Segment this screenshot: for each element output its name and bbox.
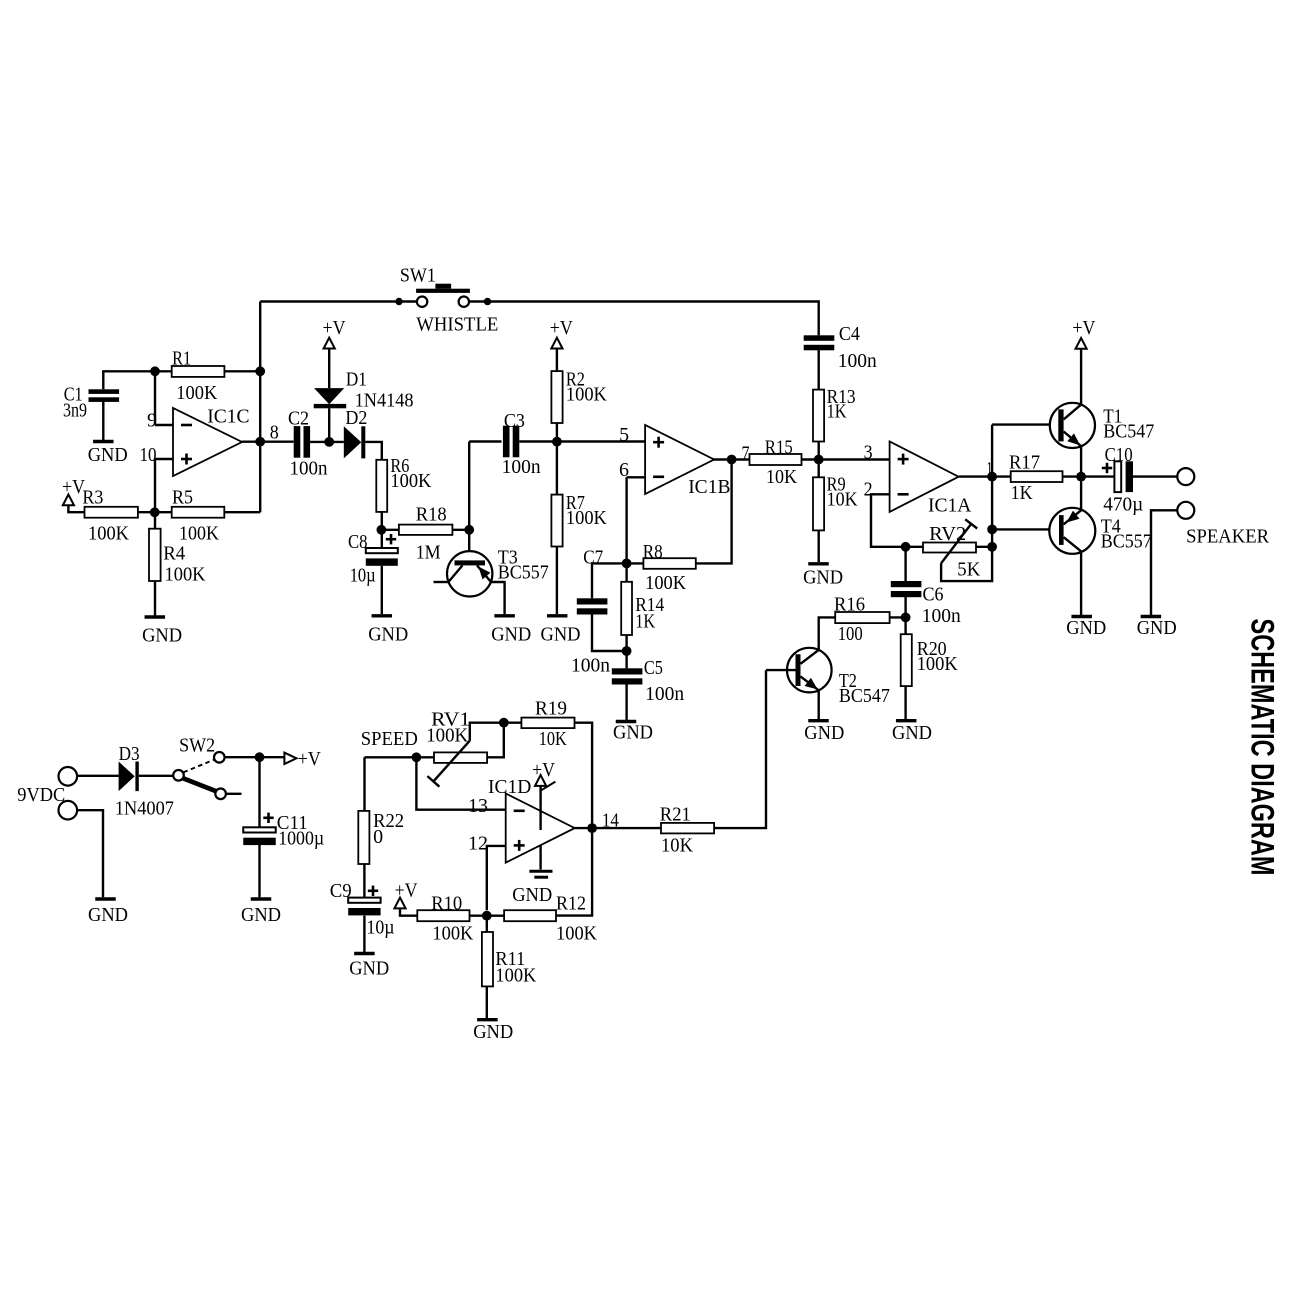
svg-text:100n: 100n — [290, 459, 328, 480]
capacitor C7 — [577, 598, 608, 604]
ground below C8 — [372, 614, 393, 617]
svg-text:10µ: 10µ — [350, 566, 376, 587]
electrolytic capacitor C10 — [1114, 461, 1121, 492]
wire T1/T4 base riser — [991, 425, 993, 547]
op-amp IC1D — [506, 794, 575, 863]
svg-text:IC1C: IC1C — [207, 407, 249, 428]
wire R14 leads — [625, 563, 627, 581]
svg-text:10K: 10K — [827, 490, 858, 511]
wire R13 to junction — [818, 442, 820, 460]
wire to R22 — [363, 757, 365, 811]
speaker terminal 2 — [1177, 502, 1194, 519]
svg-text:R5: R5 — [172, 488, 193, 509]
svg-text:WHISTLE: WHISTLE — [416, 315, 498, 336]
+V supply at R2 — [551, 338, 562, 349]
node R19 left junction — [499, 718, 509, 728]
wire feedback to R8 — [696, 460, 732, 564]
potentiometer RV1 — [434, 752, 487, 763]
wire +V to D1 — [328, 349, 330, 389]
svg-text:+V: +V — [298, 749, 321, 770]
wire D2 to R6 — [365, 442, 382, 460]
svg-text:GND: GND — [541, 625, 581, 646]
wire R16 left to T2 collector — [819, 617, 836, 650]
svg-text:GND: GND — [142, 626, 182, 647]
svg-text:R19: R19 — [535, 699, 567, 720]
svg-text:R1: R1 — [172, 349, 191, 370]
wire C10 to speaker terminal — [1133, 475, 1177, 477]
node output/feedback junction — [727, 455, 737, 465]
+V supply at R10 — [394, 898, 405, 909]
svg-text:100n: 100n — [502, 457, 541, 478]
wire RV2 right to junction — [976, 546, 992, 548]
resistor R17 — [1011, 471, 1063, 482]
node R6/C8/R18 junction — [377, 525, 387, 535]
svg-text:1M: 1M — [416, 543, 441, 564]
+V supply at R3 — [63, 495, 74, 506]
wire SPEED node — [365, 756, 435, 758]
svg-text:C2: C2 — [288, 409, 309, 430]
svg-text:R4: R4 — [163, 544, 185, 565]
wire C8 to ground — [381, 566, 383, 614]
wire C1 to ground — [102, 402, 104, 441]
svg-text:GND: GND — [803, 568, 843, 589]
wire T3 collector stub — [434, 581, 449, 583]
node C6 top junction — [901, 542, 911, 552]
svg-text:GND: GND — [241, 905, 281, 926]
wire to C11 — [258, 757, 260, 827]
wire C4 to R13 — [818, 350, 820, 390]
svg-text:10µ: 10µ — [367, 918, 395, 939]
wire R15 right / pin 3 — [801, 458, 889, 460]
capacitor C5 — [612, 668, 643, 674]
+V supply at D1 — [324, 338, 335, 349]
wire R16 right — [890, 616, 906, 618]
wire R6 to C8/R18 junction — [381, 512, 383, 548]
svg-text:R8: R8 — [643, 542, 663, 563]
svg-text:IC1A: IC1A — [928, 496, 971, 517]
wire R5 right to rail — [224, 511, 260, 513]
speaker terminal 1 — [1177, 468, 1194, 485]
svg-text:1K: 1K — [827, 402, 847, 423]
svg-text:10K: 10K — [661, 836, 693, 857]
wire +V to R3 — [68, 505, 84, 512]
node R16/C6/R20 junction — [901, 613, 911, 623]
wire R1 right to rail — [224, 370, 260, 372]
wire R2 to junction — [556, 423, 558, 442]
wire pin 12 — [487, 846, 506, 910]
wire 9VDC to D3 — [77, 775, 119, 777]
resistor R12 — [504, 910, 556, 921]
node R18/T3/C3 junction — [464, 525, 474, 535]
diode D3 — [119, 762, 135, 792]
svg-text:GND: GND — [491, 625, 531, 646]
svg-text:C3: C3 — [504, 411, 525, 432]
svg-text:100n: 100n — [645, 684, 684, 705]
wire to R18 left — [381, 529, 399, 531]
resistor R14 — [621, 582, 632, 635]
svg-text:9: 9 — [147, 411, 157, 432]
svg-text:+V: +V — [532, 760, 555, 781]
svg-text:1: 1 — [987, 459, 993, 480]
resistor R10 — [417, 910, 469, 921]
svg-text:GND: GND — [804, 723, 844, 744]
ground below R9 — [808, 562, 829, 565]
node rail/R1 junction — [255, 366, 265, 376]
svg-text:10K: 10K — [539, 729, 567, 750]
wire RV2 wiper loop — [941, 547, 992, 581]
wire T3 base — [468, 530, 470, 561]
svg-text:3: 3 — [864, 443, 873, 464]
svg-text:8: 8 — [270, 423, 279, 444]
svg-text:BC557: BC557 — [498, 563, 549, 584]
wire R20 leads — [904, 617, 906, 634]
node T4 base junction — [987, 525, 997, 535]
svg-text:GND: GND — [349, 959, 389, 980]
resistor R18 — [399, 525, 453, 535]
resistor R11 — [482, 932, 493, 986]
wire +V to T1 collector — [1080, 349, 1082, 405]
resistor R5 — [172, 507, 225, 518]
ground below T4 — [1071, 615, 1092, 618]
svg-text:9VDC: 9VDC — [17, 785, 65, 806]
wire R18 right to T3 base riser — [452, 529, 469, 531]
resistor R9 — [813, 477, 824, 530]
svg-text:C9: C9 — [330, 881, 352, 902]
wire R22 to C9 — [363, 864, 365, 897]
svg-text:D3: D3 — [119, 744, 140, 765]
wire R1 left to C1 and pin 9 — [103, 371, 155, 389]
svg-text:3n9: 3n9 — [63, 401, 87, 422]
node pin6/R8/C7/R14 junction — [622, 559, 632, 569]
svg-text:13: 13 — [468, 796, 488, 817]
svg-text:RV2: RV2 — [929, 524, 966, 545]
node pin 14 junction — [587, 823, 597, 833]
resistor R4 — [149, 529, 161, 581]
resistor R15 — [750, 454, 802, 465]
svg-text:R21: R21 — [660, 805, 691, 826]
node pin 1 junction — [987, 472, 997, 482]
ground below T2 — [808, 719, 829, 722]
wire top rail right of SW1 — [469, 302, 819, 336]
switch SW2 — [173, 770, 184, 781]
svg-text:C8: C8 — [348, 532, 368, 553]
svg-text:SCHEMATIC DIAGRAM: SCHEMATIC DIAGRAM — [1244, 619, 1280, 876]
wire IC1B output pin 7 — [713, 458, 749, 460]
svg-text:1N4007: 1N4007 — [115, 799, 174, 820]
wire to C5 — [625, 651, 627, 668]
wire R3 to R5 junction — [138, 511, 172, 513]
svg-text:100K: 100K — [917, 654, 958, 675]
svg-text:100K: 100K — [176, 383, 217, 404]
node R15/R13/R9/pin3 junction — [814, 455, 824, 465]
node R10/R11/R12/pin12 junction — [482, 911, 492, 921]
wire R8 left junction — [627, 562, 644, 564]
+V supply at T1 — [1076, 338, 1087, 349]
wire to R1 left — [155, 370, 172, 372]
wire R19 right feedback — [556, 723, 592, 916]
wire pin 2 to RV2 — [871, 494, 923, 547]
svg-text:SW2: SW2 — [179, 736, 215, 757]
svg-text:R16: R16 — [834, 595, 865, 616]
svg-text:+V: +V — [395, 881, 418, 902]
wire +V to R10 — [400, 908, 417, 915]
+V supply above IC1D — [535, 775, 546, 786]
svg-text:100n: 100n — [922, 606, 961, 627]
wire SW2 lower contact stub — [226, 793, 242, 795]
ground below speaker — [1141, 615, 1162, 618]
node C7/R14/C5 junction — [622, 646, 632, 656]
svg-text:12: 12 — [468, 834, 488, 855]
transistor T4 — [1049, 508, 1095, 554]
svg-text:GND: GND — [368, 625, 408, 646]
resistor R21 — [661, 823, 714, 834]
svg-text:0: 0 — [373, 827, 383, 848]
node output junction — [1076, 472, 1086, 482]
electrolytic capacitor C9 — [348, 898, 380, 903]
resistor R1 — [172, 366, 225, 377]
wire D1 to C2/D2 node — [328, 408, 330, 442]
resistor R22 — [358, 811, 369, 864]
svg-text:100K: 100K — [432, 924, 473, 945]
wire T4 base — [992, 528, 1059, 530]
wire RV1 right end riser — [487, 723, 504, 758]
svg-text:100K: 100K — [390, 471, 431, 492]
wire C9 to ground — [363, 916, 365, 952]
svg-text:R17: R17 — [1009, 453, 1040, 474]
ground below 9VDC — [95, 897, 116, 900]
wire C6 bottom — [904, 597, 906, 618]
svg-text:GND: GND — [88, 445, 128, 466]
wire T3 emitter to ground — [491, 582, 505, 614]
stray mark near IC1D supply — [541, 782, 555, 791]
wire pin 10 riser — [155, 458, 173, 460]
svg-text:C4: C4 — [839, 324, 860, 345]
switch SW1 — [395, 298, 402, 305]
capacitor C3 — [503, 426, 510, 458]
resistor R20 — [901, 634, 912, 686]
resistor R19 — [521, 718, 574, 729]
terminal 9VDC negative — [59, 801, 78, 820]
svg-text:+V: +V — [1072, 318, 1095, 339]
ground below R7 — [547, 614, 568, 617]
op-amp IC1C output pin 8 wire — [242, 441, 294, 443]
svg-text:100K: 100K — [566, 508, 607, 529]
svg-text:100K: 100K — [645, 573, 686, 594]
wire +V to R2 — [556, 349, 558, 372]
capacitor C1 — [89, 389, 120, 394]
svg-text:SPEED: SPEED — [361, 729, 418, 750]
svg-text:GND: GND — [1137, 618, 1177, 639]
wire T2 emitter to ground — [818, 690, 820, 719]
ground below R4 — [145, 615, 166, 618]
ground below C11 — [251, 897, 272, 900]
wire 9VDC negative to ground — [77, 810, 103, 897]
svg-text:R18: R18 — [416, 504, 447, 525]
ground below T3 — [494, 614, 514, 617]
node RV2 right junction — [987, 542, 997, 552]
potentiometer RV2 — [923, 543, 976, 553]
svg-text:100n: 100n — [838, 351, 877, 372]
svg-text:BC557: BC557 — [1101, 532, 1152, 553]
svg-text:C6: C6 — [923, 585, 944, 606]
svg-text:1000µ: 1000µ — [278, 829, 324, 850]
svg-text:100K: 100K — [566, 385, 607, 406]
node R2/R7/pin5 junction — [552, 437, 562, 447]
wire C5 to ground — [625, 684, 627, 720]
ground IC1D power pin — [529, 870, 552, 873]
ground below R11 — [477, 1018, 498, 1021]
wire R7 leads — [556, 442, 558, 495]
svg-text:R12: R12 — [556, 894, 586, 915]
resistor R2 — [551, 371, 562, 423]
wire T1 emitter to output node — [1080, 446, 1082, 476]
wire C3 to IC1B pin 5 — [519, 440, 645, 442]
svg-text:IC1B: IC1B — [688, 477, 730, 498]
svg-text:GND: GND — [1066, 618, 1106, 639]
node pin10/R3/R4/R5 junction — [150, 507, 160, 517]
svg-text:C10: C10 — [1105, 445, 1133, 466]
resistor R7 — [551, 495, 562, 547]
svg-text:100K: 100K — [426, 726, 468, 747]
wire IC1D ground pin — [539, 845, 541, 870]
svg-text:470µ: 470µ — [1103, 495, 1143, 516]
ground below C5 — [616, 720, 637, 723]
wire D3 to SW2 — [139, 775, 173, 777]
ground below C9 — [354, 952, 375, 955]
svg-text:R15: R15 — [765, 437, 793, 458]
wire R10/R11/R12 junction row — [470, 915, 505, 917]
svg-text:IC1D: IC1D — [488, 777, 531, 798]
wire to C7 — [592, 563, 627, 598]
svg-text:R3: R3 — [82, 488, 103, 509]
svg-text:100K: 100K — [88, 524, 129, 545]
svg-text:SW1: SW1 — [400, 266, 436, 287]
svg-text:C5: C5 — [644, 658, 663, 679]
resistor R13 — [813, 390, 824, 442]
svg-text:R10: R10 — [431, 894, 462, 915]
node C11 top junction — [255, 752, 265, 762]
svg-text:GND: GND — [613, 723, 653, 744]
svg-text:100K: 100K — [165, 565, 206, 586]
svg-text:+V: +V — [550, 318, 573, 339]
resistor R3 — [85, 507, 138, 518]
svg-text:+V: +V — [323, 318, 346, 339]
resistor R8 — [643, 558, 695, 569]
svg-text:100K: 100K — [556, 924, 597, 945]
op-amp IC1B — [645, 425, 714, 494]
svg-text:D2: D2 — [345, 408, 367, 429]
svg-text:SPEAKER: SPEAKER — [1186, 527, 1269, 548]
node R1 left junction — [150, 366, 160, 376]
svg-text:GND: GND — [892, 723, 932, 744]
svg-text:100n: 100n — [571, 656, 610, 677]
svg-text:100: 100 — [838, 624, 863, 645]
wire IC1D +V pin — [539, 786, 541, 830]
wire C11 to ground — [258, 845, 260, 898]
wire R4 leads — [154, 512, 156, 529]
node RV1 left junction — [412, 752, 422, 762]
capacitor C6 — [891, 581, 922, 587]
wire speaker terminal 2 to ground — [1151, 510, 1177, 615]
diode D1 — [314, 388, 344, 404]
electrolytic capacitor C11 — [243, 827, 276, 832]
svg-text:GND: GND — [473, 1022, 513, 1043]
resistor R6 — [376, 460, 387, 512]
svg-text:5: 5 — [619, 425, 629, 446]
wire top rail left of SW1 — [260, 300, 417, 302]
wire to C3 — [469, 440, 501, 442]
wire IC1A output pin 1 — [959, 475, 1011, 477]
wire T4 collector to ground — [1080, 552, 1082, 615]
ground below C1 — [93, 440, 114, 443]
wire RV1 wiper to R19 — [470, 723, 522, 741]
svg-text:100K: 100K — [179, 524, 219, 545]
svg-text:D1: D1 — [346, 370, 367, 391]
wire C7 bottom to R14 bottom — [592, 614, 627, 652]
wire pin 13 — [416, 757, 505, 809]
svg-text:BC547: BC547 — [1103, 422, 1154, 443]
svg-text:C7: C7 — [583, 548, 603, 569]
wire R21 to T2 base — [714, 670, 766, 828]
terminal 9VDC positive — [59, 767, 78, 786]
wire R17 right to output node — [1063, 475, 1115, 477]
wire T1 base — [992, 423, 1058, 425]
svg-text:5K: 5K — [957, 560, 980, 581]
wire R9 leads — [818, 460, 820, 478]
electrolytic capacitor C8 — [366, 548, 398, 553]
wire T2 base — [766, 669, 796, 671]
wire SW2 upper contact to +V — [225, 756, 285, 758]
wire pin 6 — [627, 476, 646, 478]
resistor R16 — [835, 612, 889, 623]
transistor T3 — [447, 551, 492, 596]
op-amp IC1A — [890, 442, 959, 512]
wire riser to C3 — [468, 442, 470, 530]
svg-text:BC547: BC547 — [839, 686, 890, 707]
+V supply arrow right — [284, 753, 296, 764]
wire R11 leads — [486, 916, 488, 932]
capacitor C4 — [804, 335, 835, 341]
svg-text:GND: GND — [88, 905, 128, 926]
svg-text:7: 7 — [742, 444, 750, 465]
transistor T2 — [787, 648, 832, 693]
transistor T1 — [1050, 403, 1095, 448]
node D1/C2/D2 junction — [324, 437, 334, 447]
diode D2 — [344, 426, 362, 458]
svg-text:10K: 10K — [766, 467, 797, 488]
capacitor C2 — [294, 426, 301, 458]
svg-text:1K: 1K — [1011, 483, 1033, 504]
svg-text:100K: 100K — [495, 966, 536, 987]
wire C6 top — [904, 547, 906, 581]
ground below R20 — [896, 719, 917, 722]
wire C2 to D2 — [310, 441, 344, 443]
svg-text:1K: 1K — [635, 612, 655, 633]
svg-text:GND: GND — [512, 885, 552, 906]
wire IC1D output pin 14 — [574, 827, 661, 829]
wire output rail vertical — [259, 302, 261, 513]
svg-text:14: 14 — [602, 811, 619, 832]
wire T4 emitter to output node — [1080, 477, 1082, 511]
op-amp IC1C — [173, 408, 242, 476]
